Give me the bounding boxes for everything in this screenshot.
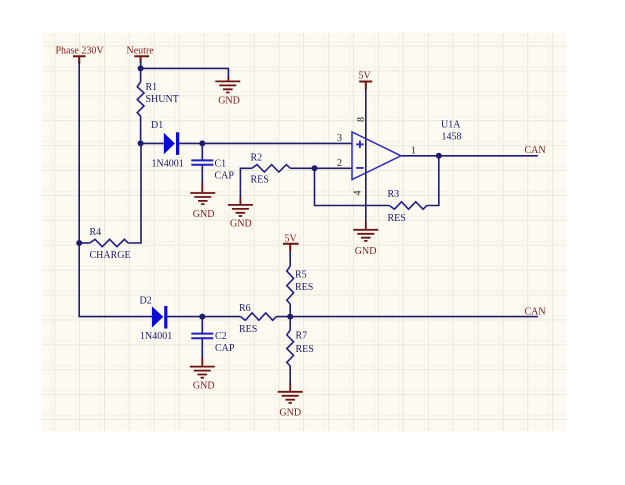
svg-text:C1: C1	[215, 158, 227, 169]
svg-text:5V: 5V	[285, 233, 298, 244]
wire: R2 right lead to op-amp pin 2	[290, 167, 352, 169]
svg-text:GND: GND	[193, 381, 215, 392]
svg-text:SHUNT: SHUNT	[146, 94, 179, 105]
svg-text:Neutre: Neutre	[127, 46, 155, 57]
wire: R7 leads	[289, 317, 291, 384]
svg-text:RES: RES	[239, 324, 257, 335]
svg-text:GND: GND	[230, 219, 252, 230]
capacitor C2 CAP	[191, 331, 235, 354]
svg-text:RES: RES	[295, 282, 313, 293]
wire: R2 left lead and drop to GND	[240, 168, 251, 197]
svg-text:1458: 1458	[442, 132, 462, 143]
svg-text:CAN: CAN	[525, 306, 546, 317]
resistor R2 RES	[251, 153, 291, 186]
capacitor C1 CAP	[191, 158, 234, 181]
wire: R3 right lead up to output node	[427, 156, 439, 206]
power port 5V (bottom)	[283, 244, 299, 252]
svg-text:CAP: CAP	[215, 170, 235, 181]
svg-text:4: 4	[353, 191, 364, 196]
svg-text:1: 1	[411, 146, 416, 157]
junction node Neutre/R1	[138, 65, 144, 71]
svg-text:1N4001: 1N4001	[152, 158, 184, 169]
svg-text:D1: D1	[151, 120, 163, 131]
wire: R5 leads	[289, 252, 291, 317]
wire: D1 cathode to op-amp pin 3	[179, 142, 352, 144]
resistor R3 RES	[388, 189, 427, 224]
svg-text:CAN: CAN	[525, 145, 546, 156]
junction node op-amp pin 2	[312, 165, 318, 171]
junction node Phase/R4	[76, 240, 82, 246]
svg-text:5V: 5V	[359, 70, 372, 81]
svg-text:RES: RES	[388, 213, 406, 224]
junction node op-amp output	[436, 153, 442, 159]
svg-text:8: 8	[356, 117, 367, 122]
resistor R4 CHARGE	[90, 227, 131, 261]
svg-text:R7: R7	[296, 331, 308, 342]
wire: node to GND (top)	[141, 68, 229, 77]
wire: R6 right to bottom CAN	[276, 316, 538, 318]
ground GND (below C1)	[190, 183, 215, 220]
svg-text:C2: C2	[215, 331, 227, 342]
svg-text:D2: D2	[140, 295, 152, 306]
power port Neutre	[134, 56, 149, 63]
ground GND (op-amp pin 4)	[353, 221, 378, 257]
svg-text:Phase 230V: Phase 230V	[56, 46, 105, 57]
ground GND (below R2)	[228, 197, 253, 230]
svg-text:R5: R5	[295, 270, 307, 281]
junction node D1 cathode / C1	[199, 140, 205, 146]
wire: Neutre stub down to node	[140, 62, 142, 69]
svg-text:2: 2	[337, 158, 342, 169]
wire: R1 leads	[140, 68, 142, 143]
ground GND (neutre net, top)	[215, 76, 240, 106]
svg-text:R3: R3	[388, 189, 400, 200]
svg-text:GND: GND	[355, 246, 377, 257]
diode D2 1N4001	[140, 295, 173, 342]
svg-text:U1A: U1A	[441, 120, 461, 131]
wire: C1 bottom lead	[201, 165, 203, 184]
wire: Phase 230V net, down left side then across to D2	[79, 62, 152, 317]
junction node D2 cathode / C2	[199, 314, 205, 320]
svg-text:R6: R6	[239, 303, 251, 314]
diode D1 1N4001	[151, 120, 184, 170]
svg-text:RES: RES	[251, 174, 269, 185]
svg-text:GND: GND	[218, 95, 240, 106]
svg-text:RES: RES	[296, 344, 314, 355]
svg-text:CHARGE: CHARGE	[90, 250, 131, 261]
svg-text:R4: R4	[90, 227, 102, 238]
svg-text:GND: GND	[279, 407, 301, 418]
resistor R5 RES	[287, 266, 314, 304]
junction node D1 anode	[138, 140, 144, 146]
schematic sheet background	[42, 33, 567, 431]
wire: R4 right lead up to D1 anode node	[128, 143, 141, 243]
resistor R1 SHUNT	[137, 82, 179, 116]
wire: R4 left lead	[79, 242, 90, 244]
power port 5V (top)	[359, 82, 372, 90]
ground GND (below C2)	[190, 357, 215, 392]
op-amp U1A 1458	[352, 120, 462, 180]
svg-text:3: 3	[337, 133, 342, 144]
wire: D1 anode lead	[141, 142, 164, 144]
junction node R5/R6/R7	[287, 314, 293, 320]
wire: op-amp supply pin 8 to pin 4 vertical	[365, 89, 367, 222]
wire: D2 cathode to R6	[167, 316, 240, 318]
ground GND (below R7)	[278, 383, 303, 419]
svg-text:1N4001: 1N4001	[140, 331, 172, 342]
power port Phase 230V	[73, 56, 86, 64]
resistor R7 RES	[287, 330, 314, 366]
svg-text:R2: R2	[251, 153, 263, 164]
svg-text:GND: GND	[193, 209, 215, 220]
wire: C2 top lead	[201, 317, 203, 334]
resistor R6 RES	[239, 303, 276, 335]
wire: C1 top lead	[201, 143, 203, 160]
wire: feedback from pin 2 node down and right to R3	[315, 168, 390, 205]
wire: C2 bottom lead	[201, 339, 203, 358]
svg-text:CAP: CAP	[215, 343, 235, 354]
wire: op-amp output to CAN	[401, 155, 538, 157]
svg-text:R1: R1	[146, 82, 158, 93]
